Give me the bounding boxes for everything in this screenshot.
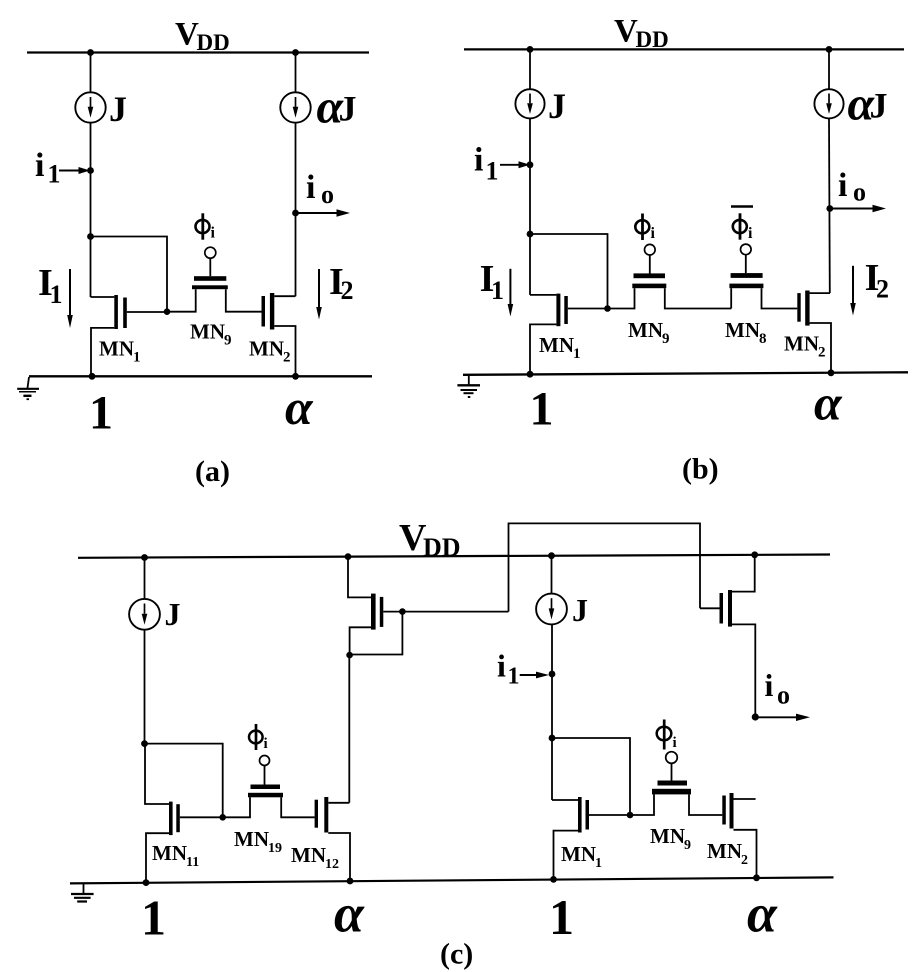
- svg-text:MN: MN: [152, 841, 187, 865]
- wire ground rail (a): [29, 375, 372, 377]
- wire alphaJ to MN2 drain (a): [295, 123, 297, 297]
- svg-text:i: i: [474, 142, 483, 179]
- current source J (b): [515, 89, 544, 118]
- label MN1 (c): [561, 842, 602, 871]
- node VDD mirror-left (c): [345, 553, 352, 560]
- transistor MN19 switch (c): [223, 756, 315, 818]
- node MN11 gate (c): [219, 814, 226, 821]
- node MN1 source ground (b): [527, 371, 534, 378]
- svg-text:9: 9: [224, 333, 232, 349]
- label MN19 (c): [234, 827, 282, 856]
- label phi_i (b): [635, 214, 655, 242]
- wire feedback MN11 (c): [145, 744, 223, 818]
- wire VDD to J source (a): [90, 53, 92, 93]
- label J (b): [548, 86, 566, 126]
- label I2 (b): [865, 257, 889, 304]
- svg-text:2: 2: [741, 853, 748, 868]
- label MN1 (b): [539, 333, 581, 362]
- label io (a): [306, 169, 334, 209]
- node MN1 gate (b): [604, 305, 611, 312]
- node MP-left gate (c): [399, 608, 406, 615]
- svg-text:i: i: [35, 147, 44, 184]
- svg-text:α: α: [285, 379, 314, 435]
- wire i1 input arrow (c): [520, 672, 549, 679]
- label caption (a): [195, 455, 230, 488]
- label MN8 (b): [725, 318, 767, 347]
- label ratio 1 (b): [530, 383, 554, 436]
- node i1 (b): [527, 161, 534, 168]
- arrow I1 down (a): [67, 269, 73, 328]
- label phi_i (a): [196, 213, 216, 241]
- node VDD-right (b): [826, 46, 833, 53]
- svg-text:i: i: [211, 225, 216, 242]
- wire J to MN11 drain (c): [144, 630, 146, 744]
- label phi_i right (c): [657, 720, 677, 752]
- svg-text:1: 1: [50, 280, 63, 309]
- svg-text:J: J: [165, 596, 181, 632]
- wire VDD to J source (b): [529, 49, 531, 89]
- svg-text:MN: MN: [725, 318, 760, 342]
- wire VDD to alphaJ (b): [828, 49, 830, 89]
- svg-text:i: i: [264, 736, 268, 752]
- svg-text:i: i: [497, 648, 506, 684]
- svg-text:1: 1: [48, 160, 61, 189]
- svg-text:J: J: [870, 86, 888, 126]
- svg-text:MN: MN: [190, 320, 225, 344]
- svg-text:i: i: [838, 167, 847, 204]
- current source J left (c): [129, 599, 160, 630]
- wire i1 input arrow (b): [500, 161, 530, 168]
- node gate feedback (b): [527, 231, 534, 238]
- label MN9 (b): [628, 318, 670, 347]
- ground symbol (c): [71, 883, 94, 901]
- svg-text:MN: MN: [249, 337, 284, 361]
- node MN1 gate (a): [164, 308, 171, 315]
- svg-text:MN: MN: [784, 332, 819, 356]
- current source J right (c): [536, 594, 567, 625]
- wire VDD rail (b): [464, 48, 904, 50]
- svg-text:12: 12: [325, 857, 339, 872]
- label VDD (a): [175, 17, 230, 56]
- label J right (c): [572, 592, 588, 628]
- wire io output arrow (c): [755, 714, 810, 721]
- label MN2 (a): [249, 337, 291, 366]
- wire ground rail (c): [70, 877, 834, 883]
- svg-text:MN: MN: [234, 827, 269, 851]
- svg-text:(c): (c): [440, 938, 473, 971]
- wire J to MN1 drain (a): [90, 123, 92, 297]
- transistor MN1 (c): [552, 797, 630, 880]
- label i1 (a): [35, 147, 61, 189]
- wire mirror-left column (c): [348, 655, 350, 803]
- svg-text:1: 1: [486, 157, 499, 186]
- label alphaJ (a): [317, 81, 357, 134]
- label MN11 (c): [152, 841, 199, 870]
- svg-text:V: V: [175, 17, 199, 53]
- transistor MN1 (b): [530, 294, 608, 374]
- svg-text:MN: MN: [99, 337, 134, 361]
- svg-text:1: 1: [508, 664, 520, 690]
- transistor MN9 switch (c): [630, 752, 722, 815]
- svg-text:2: 2: [818, 345, 826, 361]
- svg-text:i: i: [748, 225, 753, 242]
- svg-text:2: 2: [876, 275, 889, 304]
- label ratio alpha (a): [285, 379, 314, 435]
- label J left (c): [165, 596, 181, 632]
- svg-text:MN: MN: [707, 839, 742, 863]
- svg-text:1: 1: [133, 350, 141, 366]
- node VDD-left (b): [527, 46, 534, 53]
- svg-text:1: 1: [491, 276, 504, 305]
- node MN2 source ground (c): [753, 874, 760, 881]
- arrow I2 down (a): [316, 269, 322, 320]
- node MN12 source ground (c): [347, 878, 354, 885]
- svg-text:19: 19: [268, 841, 282, 856]
- ground symbol (b): [457, 375, 480, 397]
- wire top link box (c): [509, 523, 701, 611]
- label MN2 (c): [707, 839, 748, 868]
- svg-text:i: i: [765, 667, 774, 703]
- label I1 (b): [480, 258, 504, 305]
- svg-text:J: J: [109, 89, 127, 129]
- ground symbol (a): [17, 377, 39, 399]
- svg-text:8: 8: [759, 331, 767, 347]
- svg-text:MN: MN: [561, 842, 596, 866]
- svg-text:α: α: [747, 884, 778, 944]
- wire feedback MN1 (c): [552, 738, 630, 815]
- label ratio 1 (a): [89, 387, 113, 440]
- label ratio alpha right (c): [747, 884, 778, 944]
- label MN9 (a): [190, 320, 232, 349]
- svg-text:1: 1: [89, 387, 113, 440]
- svg-text:i: i: [306, 169, 315, 206]
- svg-text:V: V: [614, 14, 638, 50]
- transistor MN9 switch (b): [608, 244, 732, 308]
- label i1 (c): [497, 648, 520, 690]
- node io (b): [826, 205, 833, 212]
- label caption (b): [682, 453, 719, 486]
- current source alphaJ (a): [280, 92, 310, 122]
- label alphaJ (b): [848, 78, 888, 131]
- svg-text:(b): (b): [682, 453, 719, 486]
- wire ground rail (b): [463, 372, 908, 375]
- node MN1 gate (c): [627, 812, 634, 819]
- wire VDD rail (a): [27, 51, 369, 53]
- transistor MN2 (b): [797, 291, 831, 373]
- label io (c): [765, 667, 791, 710]
- wire feedback MN1 drain to gate (a): [91, 237, 168, 312]
- svg-text:DD: DD: [423, 533, 461, 562]
- svg-text:1: 1: [595, 856, 602, 871]
- wire io output arrow (a): [296, 209, 351, 216]
- svg-text:i: i: [673, 735, 677, 751]
- node MN1 source ground (a): [89, 373, 96, 380]
- svg-text:11: 11: [186, 855, 199, 870]
- transistor MN11 (c): [145, 744, 223, 883]
- label I2 (a): [329, 261, 354, 305]
- label phibar_i (b): [731, 207, 753, 242]
- transistor MN8 switch (b): [729, 244, 797, 308]
- svg-text:o: o: [853, 178, 866, 207]
- svg-text:1: 1: [573, 346, 581, 362]
- label ratio alpha (b): [814, 375, 843, 431]
- wire J to MN1 drain (b): [529, 118, 531, 295]
- transistor MP-left diode (c): [348, 557, 509, 655]
- svg-text:1: 1: [141, 890, 166, 946]
- svg-text:(a): (a): [195, 455, 230, 488]
- node VDD mirror-right (c): [751, 551, 758, 558]
- label io (b): [838, 167, 866, 207]
- label ratio 1 right (c): [549, 889, 574, 945]
- transistor MN9 switch (a): [167, 247, 262, 312]
- node VDD J-left (c): [141, 554, 148, 561]
- svg-text:J: J: [548, 86, 566, 126]
- svg-text:1: 1: [530, 383, 554, 436]
- transistor MN1 (a): [91, 295, 168, 376]
- node i1 (a): [87, 167, 94, 174]
- node i1 (c): [549, 671, 556, 678]
- svg-text:MN: MN: [291, 843, 326, 867]
- svg-text:2: 2: [341, 276, 354, 305]
- label caption (c): [440, 938, 473, 971]
- wire J to MN1 drain (c): [551, 625, 553, 800]
- node MN11 source ground (c): [143, 879, 150, 886]
- wire alphaJ to MN2 drain (b): [828, 118, 831, 293]
- svg-text:i: i: [651, 225, 656, 242]
- wire VDD rail (c): [78, 555, 830, 558]
- transistor MN12 (c): [315, 797, 350, 880]
- transistor MN2 (c): [722, 793, 756, 878]
- wire feedback MN1 drain to gate (b): [530, 234, 608, 309]
- node io (c): [752, 713, 759, 720]
- node MN2 source ground (b): [828, 369, 835, 376]
- node VDD J-right (c): [548, 552, 555, 559]
- node io (a): [292, 210, 299, 217]
- transistor MP-right (c): [700, 555, 755, 717]
- svg-text:o: o: [777, 681, 790, 710]
- current source J (a): [75, 92, 105, 122]
- svg-text:9: 9: [684, 838, 691, 853]
- node MN1 source ground (c): [550, 876, 557, 883]
- svg-text:1: 1: [549, 889, 574, 945]
- svg-text:2: 2: [283, 350, 291, 366]
- arrow I1 down (b): [508, 269, 514, 317]
- label VDD (c): [399, 517, 461, 562]
- wire i1 input arrow (a): [59, 167, 90, 174]
- node VDD-right (a): [292, 49, 299, 56]
- label phi_i left (c): [249, 724, 268, 752]
- svg-text:DD: DD: [636, 27, 669, 52]
- svg-text:MN: MN: [628, 318, 663, 342]
- svg-text:α: α: [334, 884, 365, 944]
- label MN9 (c): [650, 824, 691, 853]
- node feedback left (c): [141, 740, 148, 747]
- wire VDD to J source left (c): [144, 558, 146, 600]
- node VDD-left (a): [87, 49, 94, 56]
- wire VDD to alphaJ (a): [295, 53, 297, 93]
- node gate feedback (a): [87, 233, 94, 240]
- node feedback right (c): [549, 735, 556, 742]
- label MN2 (b): [784, 332, 826, 361]
- node MP-left drain (c): [346, 652, 353, 659]
- label ratio 1 left (c): [141, 890, 166, 946]
- svg-text:J: J: [339, 89, 357, 129]
- wire VDD to J source right (c): [551, 556, 553, 594]
- transistor MN2 (a): [262, 293, 296, 376]
- svg-text:α: α: [814, 375, 843, 431]
- label ratio alpha left (c): [334, 884, 365, 944]
- svg-text:DD: DD: [197, 30, 230, 55]
- label VDD (b): [614, 14, 669, 53]
- label MN1 (a): [99, 337, 141, 366]
- current source alphaJ (b): [814, 89, 843, 118]
- label MN12 (c): [291, 843, 339, 872]
- svg-text:MN: MN: [539, 333, 574, 357]
- svg-text:9: 9: [662, 331, 670, 347]
- wire io output arrow (b): [830, 205, 886, 212]
- label I1 (a): [38, 262, 63, 309]
- label J (a): [109, 89, 127, 129]
- svg-text:o: o: [321, 180, 334, 209]
- svg-text:MN: MN: [650, 824, 685, 848]
- arrow I2 down (b): [850, 266, 856, 316]
- svg-text:J: J: [572, 592, 588, 628]
- label i1 (b): [474, 142, 499, 186]
- node MN2 source ground (a): [292, 373, 299, 380]
